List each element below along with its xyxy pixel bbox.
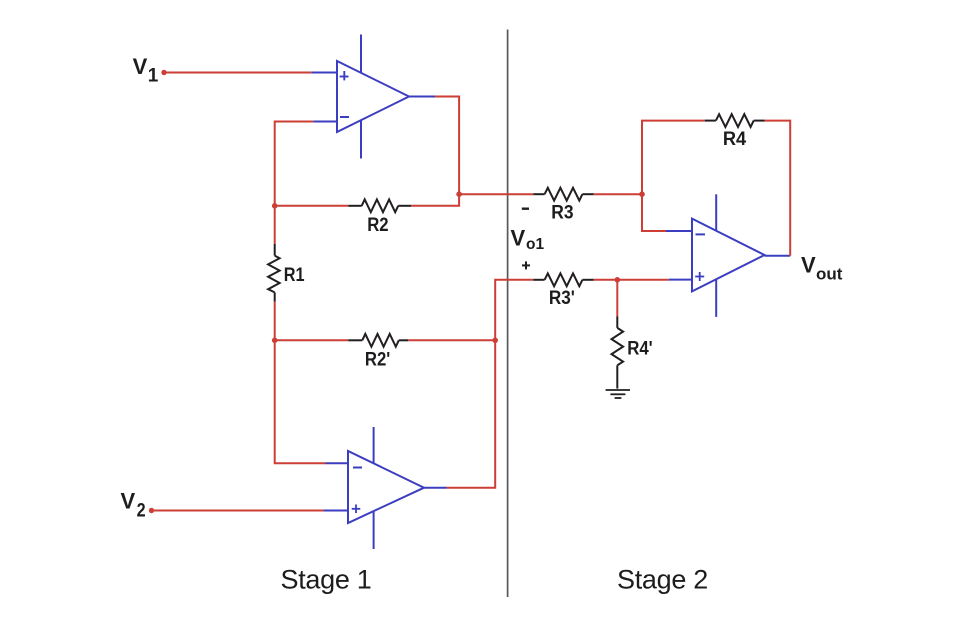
svg-text:R4: R4 [723, 128, 746, 150]
wire R3' row right to U3 + input [594, 279, 669, 281]
svg-text:V: V [511, 225, 526, 250]
svg-text:Stage 1: Stage 1 [281, 565, 372, 595]
wire U1 inverting feedback (node A up to - input) [275, 122, 314, 206]
svg-text:R3: R3 [551, 202, 573, 224]
resistor R4' [612, 316, 624, 388]
svg-text:R2: R2 [367, 214, 389, 236]
svg-text:V: V [133, 54, 148, 79]
node D (R3 right junction) [639, 191, 645, 197]
svg-text:V: V [801, 253, 816, 278]
node E (R4' junction) [615, 277, 621, 283]
label Stage 2 [617, 565, 708, 595]
label R2' [365, 349, 390, 371]
wire R2' row left [275, 339, 349, 341]
label R4' [627, 337, 653, 359]
node C (R2' right junction) [492, 338, 498, 344]
wire R3 row left (from U1 output tap) [459, 193, 533, 195]
op-amp U3 (stage 2) [666, 194, 790, 317]
label Vo1 [511, 225, 545, 252]
wire U2 inverting feedback (node B down to - input) [275, 340, 326, 463]
label Vout [801, 253, 843, 284]
resistor R2' [348, 334, 408, 347]
node B (R1 bottom junction) [272, 338, 278, 344]
resistor R1 [268, 244, 280, 302]
label V1 [133, 54, 159, 86]
op-amp U1 (top, stage 1) [311, 35, 435, 159]
wire R1 top lead (red) [274, 206, 276, 244]
ground [606, 390, 630, 398]
wire U3 feedback left vertical [642, 121, 705, 231]
label R3 [551, 202, 573, 224]
node junction U1 output tap [456, 191, 462, 197]
node V2 terminal dot [149, 508, 154, 513]
wire R2' row right [408, 339, 495, 341]
svg-text:V: V [121, 488, 136, 513]
node A (R1 top junction) [272, 203, 278, 209]
label Stage 1 [281, 565, 372, 595]
wire U2 output up to R3' [447, 280, 534, 488]
wire R3 row right [594, 193, 642, 195]
wire U1 output down to R2/R3 [411, 97, 459, 206]
wire R2 left to node A [275, 205, 349, 207]
svg-text:R2': R2' [365, 349, 390, 371]
wire R4' top lead (red) [616, 280, 618, 317]
resistor R3 [533, 188, 593, 201]
svg-text:2: 2 [137, 500, 146, 521]
svg-text:o1: o1 [526, 236, 544, 253]
label R4 [723, 128, 746, 150]
label R1 [284, 264, 305, 286]
svg-text:R1: R1 [284, 264, 305, 286]
node V1 terminal dot [161, 70, 166, 75]
wire V2 input [152, 510, 324, 512]
label R3' [549, 287, 575, 309]
svg-text:R3': R3' [549, 287, 575, 309]
resistor R2 [348, 199, 411, 212]
op-amp U2 (bottom, stage 1) [323, 427, 446, 549]
label V2 [121, 488, 146, 521]
stage divider line [507, 30, 509, 598]
svg-text:Stage 2: Stage 2 [617, 565, 708, 595]
label minus (Vo1) [522, 207, 529, 209]
resistor R3' [533, 273, 593, 286]
label plus (Vo1) [522, 261, 530, 269]
wire R1 bottom lead (red) [274, 302, 276, 341]
label R2 [367, 214, 389, 236]
wire R4 right down to U3 output [765, 121, 791, 256]
svg-text:1: 1 [148, 65, 159, 86]
wire V1 input [164, 72, 311, 74]
svg-text:out: out [816, 264, 843, 283]
resistor R4 [705, 114, 765, 127]
svg-text:R4': R4' [627, 337, 653, 359]
